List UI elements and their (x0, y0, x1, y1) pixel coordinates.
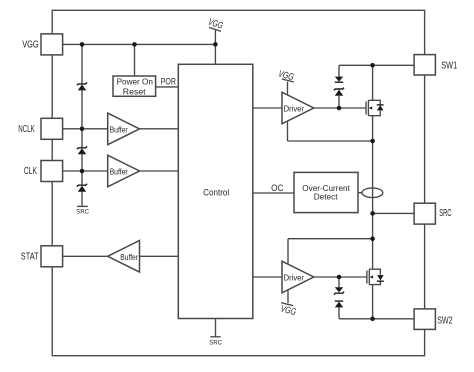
svg-text:Buffer: Buffer (110, 124, 128, 134)
svg-text:POR: POR (161, 77, 177, 87)
svg-text:CLK: CLK (24, 166, 37, 177)
svg-text:SW1: SW1 (441, 61, 457, 72)
svg-text:OC: OC (271, 183, 284, 193)
svg-text:Buffer: Buffer (110, 167, 128, 177)
svg-text:SRC: SRC (439, 208, 451, 219)
svg-text:VGG: VGG (22, 40, 39, 51)
svg-text:Detect: Detect (314, 192, 338, 202)
svg-text:SW2: SW2 (437, 315, 452, 326)
svg-text:Driver: Driver (284, 273, 304, 283)
svg-text:Buffer: Buffer (120, 252, 138, 262)
svg-text:NCLK: NCLK (18, 124, 35, 135)
svg-text:SRC: SRC (76, 209, 89, 216)
svg-text:SRC: SRC (209, 339, 222, 346)
svg-text:Driver: Driver (284, 104, 304, 114)
svg-text:STAT: STAT (21, 252, 39, 263)
svg-text:Control: Control (203, 188, 229, 198)
svg-text:Power On: Power On (117, 77, 154, 86)
svg-text:Reset: Reset (123, 88, 147, 97)
